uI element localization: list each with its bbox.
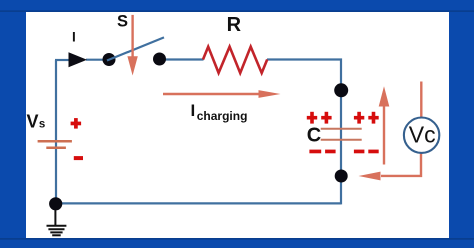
wire right vertical lower <box>340 175 342 204</box>
capacitor minus charges dashes <box>309 150 378 154</box>
svg-text:I: I <box>72 29 76 44</box>
wire capacitor branch <box>340 90 342 176</box>
battery minus sign <box>74 156 83 160</box>
voltmeter Vc <box>404 118 439 153</box>
capacitor voltage up arrow <box>379 86 390 164</box>
svg-text:Vc: Vc <box>409 121 436 147</box>
wire top-left segment <box>55 59 69 61</box>
svg-text:S: S <box>117 12 128 30</box>
wire switch-to-resistor <box>159 58 204 60</box>
wire resistor-to-corner <box>267 60 341 92</box>
switch node left <box>103 53 116 66</box>
switch blade S <box>107 37 164 60</box>
resistor R <box>203 47 267 73</box>
node top of capacitor branch <box>334 83 348 97</box>
wire left vertical <box>55 60 57 204</box>
charging current arrow <box>163 90 281 98</box>
capacitor C plates <box>321 129 362 140</box>
node bottom of capacitor branch <box>335 170 348 183</box>
battery plus sign <box>71 118 82 129</box>
voltmeter top lead <box>420 82 422 118</box>
ground <box>47 210 67 235</box>
capacitor plus charges right <box>354 112 379 124</box>
capacitor plus charges left <box>307 112 332 124</box>
current arrowhead I <box>69 52 88 67</box>
wire arrowhead-to-switch <box>86 59 109 61</box>
svg-text:R: R <box>227 14 242 36</box>
svg-text:C: C <box>307 125 321 147</box>
switch closing arrow <box>127 15 137 76</box>
battery Vs plates <box>38 141 72 148</box>
voltmeter bottom lead with arrow to node <box>359 153 422 181</box>
ground node <box>49 197 62 210</box>
switch node right <box>153 53 166 66</box>
wire bottom horizontal <box>55 202 341 204</box>
